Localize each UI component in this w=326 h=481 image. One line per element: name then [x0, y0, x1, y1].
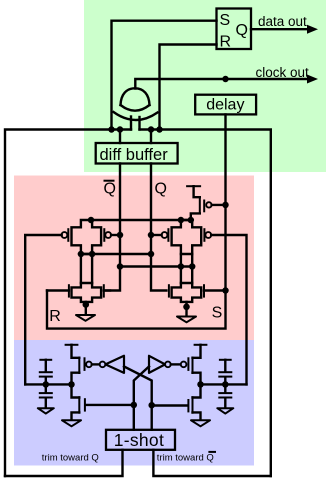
wire Q6 gate to inverter: [92, 363, 100, 365]
junction dot diff buffer right pin: [148, 126, 155, 133]
wire M1 right gate to Qbar: [111, 234, 120, 236]
wire data out: [251, 28, 309, 30]
wire M3 source stub: [85, 302, 87, 314]
wire M3 right gate from Qbar corner: [104, 289, 110, 291]
junction dot Qbar rowE tap: [117, 263, 124, 270]
wire S input to SR latch: [112, 21, 217, 130]
wire source row E: [120, 265, 192, 267]
junction dot row E cross left: [178, 263, 185, 270]
xor gate G1 extra curve: [114, 112, 158, 120]
wire xor left input stub: [130, 117, 132, 130]
transistor M3 R-side nmos cross body: [72, 283, 102, 302]
svg-text:R: R: [49, 308, 61, 325]
transistor M1 left gate plate: [67, 228, 69, 242]
wire Qbar riser: [105, 164, 120, 291]
wire M2 right gate to right trim column: [211, 235, 246, 384]
gate plate of Q6: [84, 357, 86, 371]
junction dot right cap tap: [222, 381, 229, 388]
transistor M2 left gate plate: [167, 228, 169, 242]
capacitor C3: [218, 360, 232, 392]
transistor M1 latch left cross body: [72, 220, 102, 254]
transistor Q6 left pmos: [72, 345, 100, 398]
svg-text:diff buffer: diff buffer: [100, 146, 169, 164]
arrowhead data out: [307, 25, 318, 34]
gate bubble of Q5: [206, 202, 211, 207]
vdd stub left cap chain: [39, 359, 52, 361]
transistor M1 right gate plate: [103, 228, 105, 242]
arrowhead clock out: [307, 75, 318, 84]
wire M4 right gate to delay riser: [204, 289, 226, 291]
svg-text:R: R: [220, 34, 232, 51]
wire outer loop bottom right: [153, 450, 270, 476]
transistor M4 S-side nmos cross body: [172, 283, 202, 302]
junction dot row A right cross left corner: [178, 217, 185, 224]
ground under M9: [191, 420, 210, 426]
gate plate of M7: [84, 398, 86, 411]
xor gate G1 body dome: [121, 88, 150, 105]
junction dot row A left: [88, 217, 95, 224]
transistor M2 latch right cross body: [172, 220, 202, 254]
svg-text:1-shot: 1-shot: [114, 430, 164, 450]
vdd stub left pmos Q6: [65, 344, 79, 346]
wire Qbar net top rail (left): [5, 130, 131, 477]
transistor M2 left gate bubble: [162, 232, 168, 238]
junction dot diff buffer left pin: [117, 126, 124, 133]
gate plate of M9: [187, 399, 189, 412]
wire source row C: [81, 253, 151, 255]
svg-text:clock out: clock out: [256, 65, 310, 80]
junction dot Qbar gate tap: [117, 232, 124, 239]
gate plate of Q5: [203, 200, 205, 213]
junction dot delay riser S gate: [222, 287, 229, 294]
capacitor C1: [39, 360, 53, 392]
ground under C2: [38, 408, 54, 413]
ground under M7: [62, 420, 81, 426]
drain wire of Q5: [191, 213, 200, 220]
svg-text:Q: Q: [104, 181, 116, 198]
pink background region: [14, 176, 254, 341]
wire clock out: [135, 79, 309, 89]
junction dot row C right: [89, 251, 96, 258]
wire diff buffer left top pin: [119, 130, 121, 144]
svg-text:trim toward Q: trim toward Q: [157, 452, 214, 463]
junction dot left cross-couple: [131, 402, 138, 409]
xor gate G1 input curve: [121, 105, 150, 111]
junction dot M4 source: [183, 304, 190, 311]
wire M1 source pair right: [91, 254, 93, 283]
output bubble of V2: [165, 362, 171, 368]
svg-text:Q: Q: [155, 181, 167, 198]
wire cross couple V1 input: [124, 367, 152, 430]
svg-text:Q: Q: [236, 22, 248, 39]
transistor M4 left gate plate: [168, 284, 170, 297]
transistor M2 right gate bubble: [205, 232, 211, 238]
junction dot Q rowC tap: [148, 251, 155, 258]
diff buffer box: [96, 143, 178, 164]
wire right trim node horizontal: [201, 383, 247, 385]
svg-text:delay: delay: [206, 97, 244, 114]
transistor M1 right gate bubble: [105, 232, 111, 238]
vdd stub right pmos Q8: [194, 344, 208, 346]
junction dot clock/delay tap: [222, 76, 229, 83]
wire M2 source pair right: [191, 254, 193, 283]
vdd stub right cap chain: [219, 359, 232, 361]
wire cross couple V2 input: [134, 367, 149, 430]
transistor M3 left gate plate: [68, 284, 70, 297]
transistor Q5 top right pmos: [186, 186, 225, 220]
wire diff buffer right top pin: [150, 130, 152, 144]
delay box: [195, 95, 256, 115]
wire M3 left gate to delay U: [47, 289, 69, 291]
capacitor C2: [39, 393, 53, 407]
transistor M9 right nmos: [152, 396, 201, 420]
svg-text:S: S: [220, 12, 231, 29]
wire Q riser: [151, 164, 166, 291]
junction dot left cap tap: [43, 381, 50, 388]
svg-text:S: S: [212, 305, 223, 322]
output bubble of V1: [100, 362, 106, 368]
transistor M7 left nmos: [72, 396, 134, 420]
junction dot R riser: [156, 126, 163, 133]
transistor M4 right gate plate: [203, 284, 205, 297]
wire drain row A: [91, 219, 192, 221]
wire M7 gate to cross node: [86, 404, 134, 406]
transistor M3 right gate plate: [103, 284, 105, 297]
transistor M1 left gate bubble: [62, 232, 68, 238]
wire M2 source pair left: [180, 254, 182, 283]
junction dot S riser: [108, 126, 115, 133]
ground under C4: [217, 408, 233, 413]
wire M1 left gate to left trim column: [25, 235, 62, 384]
SR latch U1 box: [217, 9, 252, 50]
wire V2 output to Q8 gate: [171, 363, 181, 365]
svg-text:trim toward Q: trim toward Q: [42, 452, 99, 463]
junction dot delay riser Q5 gate: [222, 202, 229, 209]
junction dot right inverter drain node: [197, 381, 204, 388]
junction dot left inverter drain node: [68, 381, 75, 388]
inverter V1 (points left): [100, 356, 124, 373]
transistor M2 right gate plate: [203, 228, 205, 242]
overline of Qbar label: [104, 180, 115, 182]
svg-text:data out: data out: [258, 14, 307, 29]
wire M1 source pair left: [80, 254, 82, 283]
junction dot M3 source: [83, 301, 90, 308]
wire M4 source stub: [185, 302, 187, 316]
wire xor right input stub: [138, 117, 140, 130]
wire delay net U route: [47, 114, 226, 328]
junction dot Q gate tap: [148, 232, 155, 239]
1-shot box: [106, 430, 175, 450]
wire M9 gate to cross node: [152, 404, 188, 406]
channel bar of Q5: [199, 197, 201, 215]
junction dot row E cross right: [189, 263, 196, 270]
inverter V2 (points right): [149, 356, 181, 373]
blue background region: [14, 340, 254, 466]
wire outer loop bottom left: [5, 450, 123, 476]
wire M2 left gate to Q: [151, 234, 162, 236]
junction dot right cross-couple: [148, 402, 155, 409]
gate plate of Q8: [187, 357, 189, 371]
capacitor C4: [218, 393, 232, 407]
junction dot row C left: [78, 251, 85, 258]
junction dot row A pmos drain: [188, 217, 195, 224]
gate bubble of Q8: [181, 362, 187, 368]
transistor Q8 right pmos: [181, 345, 201, 398]
ground symbol under M3: [76, 315, 95, 321]
gate bubble of Q6: [86, 362, 92, 368]
wire Q net top rail (right): [140, 130, 271, 477]
vdd stub of Q5: [186, 185, 201, 187]
wire Q5 gate to delay riser: [212, 204, 226, 206]
wire left trim node horizontal: [25, 383, 71, 385]
green background region: [84, 0, 326, 172]
ground symbol under M4: [177, 317, 196, 323]
overline of trim Qbar: [208, 451, 216, 453]
wire R input to SR latch: [160, 45, 217, 130]
